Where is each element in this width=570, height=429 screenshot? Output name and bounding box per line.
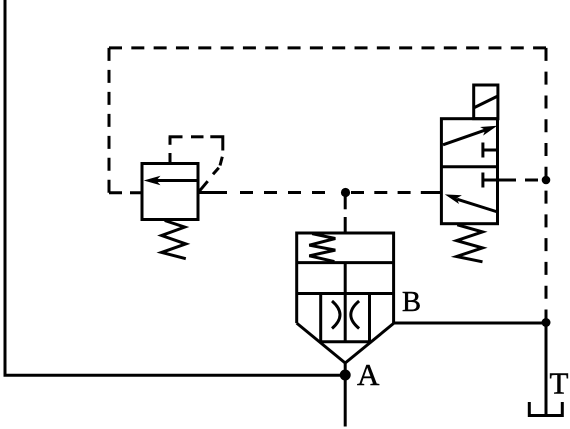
relief valve V1 pilot sense loop (dashed over the top) (169, 137, 223, 192)
cartridge valve C1 right seat arc (351, 301, 359, 329)
cartridge valve C1 outer body (297, 233, 394, 375)
pilot line: top dashed horizontal (109, 46, 546, 49)
cartridge valve C1 horizontal dividers (297, 263, 394, 294)
pilot valve V2 body (two position squares) (441, 119, 497, 224)
pilot valve V2 bottom position flow arrow (445, 194, 498, 212)
node junction dot of B line on right vertical (542, 318, 551, 327)
svg-text:T: T (550, 366, 569, 401)
cartridge valve C1 spring in top chamber (309, 234, 335, 262)
cartridge valve C1 left seat arc (332, 301, 340, 329)
pilot line: dashed from left corner to relief valve port (109, 191, 142, 194)
relief valve V1 body square (142, 164, 198, 220)
port label A (357, 357, 380, 392)
svg-text:B: B (402, 287, 421, 318)
pilot valve V2 solenoid box with diagonal (474, 85, 498, 119)
node junction dot pilot valve to right vertical (542, 176, 551, 185)
pilot valve V2 return spring (457, 225, 483, 262)
tank symbol (529, 402, 562, 416)
node A junction dot (340, 370, 351, 381)
relief valve V1 right port solid stub (198, 191, 227, 194)
pilot line: dashed from pilot valve right port to right vertical (503, 179, 546, 182)
cartridge valve C1 inner seat walls (321, 294, 370, 342)
pilot valve V2 top position blocked port symbol (483, 143, 498, 158)
wire port B line to right vertical (394, 322, 546, 325)
wire main supply line P (left frame, vertical then horizontal to node A) (5, 0, 345, 375)
pilot line: dashed between relief valve and pilot valve (240, 191, 411, 194)
port label B (402, 287, 421, 318)
svg-text:A: A (357, 357, 380, 392)
relief valve V1 internal flow arrow (144, 176, 198, 185)
pilot valve V2 top position flow arrow (443, 126, 497, 145)
pilot line: left dashed vertical of pilot loop (108, 48, 111, 193)
node junction dot above cartridge valve (341, 188, 350, 197)
relief valve V1 spring (162, 221, 186, 259)
pilot line: dashed from junction down to cartridge valve (344, 197, 347, 234)
wire solid tank line below B junction (545, 323, 548, 416)
cartridge valve C1 center poppet stem line (344, 263, 347, 342)
pilot valve V2 bottom position blocked port symbol (483, 173, 503, 188)
pilot line: right dashed vertical (545, 48, 548, 323)
wire from node A down to bottom edge (344, 375, 347, 427)
port label T (550, 366, 569, 401)
pilot valve V2 left pilot port solid stub (421, 191, 442, 194)
